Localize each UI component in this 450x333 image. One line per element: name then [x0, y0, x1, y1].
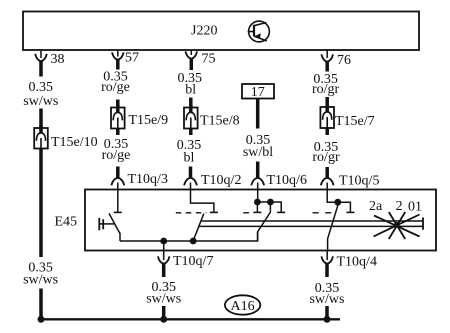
- svg-text:T15e/8: T15e/8: [200, 114, 240, 129]
- switch1 actuator line: [99, 223, 115, 225]
- wire col5 stub below connector: [325, 128, 329, 135]
- pin T10q/3 into E45: [117, 183, 119, 212]
- svg-text:ro/gr: ro/gr: [312, 82, 340, 97]
- contact foot switch3 left: [253, 211, 261, 213]
- switch3 lever: [258, 202, 271, 241]
- terminal 17 box: [242, 84, 274, 99]
- node A16 oval: [225, 295, 260, 314]
- contact foot switch3 right: [277, 211, 285, 213]
- wire T10q/7 to bus: [162, 306, 166, 319]
- svg-text:2a: 2a: [369, 199, 383, 214]
- svg-text:T10q/4: T10q/4: [337, 255, 377, 270]
- wire T10q/7 stub: [162, 264, 166, 278]
- transistor icon U1: [248, 21, 270, 42]
- svg-text:T10q/7: T10q/7: [173, 254, 213, 269]
- wire col3 stub below connector: [189, 129, 193, 136]
- switch3 bridge wire: [257, 202, 281, 212]
- switch4 lever: [328, 202, 338, 250]
- svg-text:T10q/2: T10q/2: [201, 173, 241, 188]
- wire from 17: [256, 99, 260, 129]
- connector terminal 75 fork: [186, 51, 198, 58]
- svg-text:ro/ge: ro/ge: [101, 80, 130, 95]
- junction dot rail T10q/7: [160, 238, 167, 245]
- pin 38 of J220: [40, 50, 42, 58]
- wire col5 to connector: [325, 97, 329, 107]
- wire col5 stub below fork: [325, 62, 329, 72]
- wire col2 to E45: [116, 167, 120, 178]
- junction dot rail lever2: [190, 238, 197, 245]
- track line lower: [198, 225, 423, 227]
- connector T15e/10: [34, 125, 48, 149]
- connector terminal T10q/7 fork: [158, 256, 170, 263]
- dashed coupling line switch4: [313, 212, 332, 214]
- track terminator bar: [422, 218, 424, 230]
- wire col2 stub below connector: [116, 129, 120, 136]
- connector terminal 76 fork: [321, 54, 333, 61]
- wire T10q/4 to bus: [325, 306, 329, 319]
- svg-text:T10q/3: T10q/3: [128, 172, 168, 187]
- svg-text:17: 17: [251, 85, 265, 100]
- connector T15e/7: [320, 104, 334, 129]
- svg-text:J220: J220: [191, 24, 217, 39]
- contact stub switch3 left: [256, 202, 258, 212]
- pin T10q/5 into E45: [327, 183, 338, 203]
- pin 75 of J220: [190, 50, 192, 55]
- connector terminal 38 fork: [35, 54, 47, 61]
- contact foot switch1: [114, 211, 122, 213]
- switch1 lever: [109, 213, 120, 241]
- connector terminal T10q/4 fork: [321, 256, 333, 263]
- wire col3 to E45: [189, 167, 193, 178]
- wire col1 to connector: [39, 109, 43, 129]
- wire col5 to E45: [325, 167, 329, 178]
- wire col3 stub below fork: [190, 59, 194, 71]
- wire col1 stub below fork: [39, 61, 43, 77]
- svg-text:A16: A16: [231, 299, 255, 314]
- wire col2 to connector: [116, 100, 120, 108]
- connector terminal T10q/6 arch: [251, 178, 264, 186]
- switch unit E45 box: [85, 190, 436, 251]
- wire col1 long: [39, 149, 43, 258]
- dashed coupling line switch2: [176, 212, 207, 214]
- connector terminal T10q/5 arch: [321, 178, 334, 186]
- svg-text:75: 75: [202, 52, 216, 67]
- junction dot bus left: [38, 316, 45, 323]
- svg-text:sw/ws: sw/ws: [146, 292, 181, 307]
- switch1 actuator bar 1: [98, 218, 100, 231]
- wire col2 stub below fork: [116, 60, 120, 70]
- pin T10q/4 out of E45: [326, 251, 328, 261]
- svg-text:sw/ws: sw/ws: [23, 94, 58, 109]
- wire T10q/4 stub: [325, 264, 329, 278]
- track line upper: [201, 220, 423, 222]
- svg-text:T15e/7: T15e/7: [335, 114, 375, 129]
- wire col17 to E45: [256, 162, 260, 178]
- svg-text:T10q/6: T10q/6: [267, 173, 307, 188]
- junction dot bus right: [324, 316, 331, 323]
- svg-text:ro/gr: ro/gr: [312, 150, 340, 165]
- bottom rail inside E45: [120, 232, 258, 241]
- connector terminal T10q/2 arch: [184, 178, 197, 186]
- svg-text:2: 2: [396, 199, 403, 214]
- wire rail to T10q/7: [163, 241, 165, 251]
- svg-text:01: 01: [408, 200, 422, 215]
- svg-text:sw/ws: sw/ws: [309, 292, 344, 307]
- wire col1 to bus: [39, 289, 43, 319]
- connector T15e/9: [111, 104, 125, 129]
- lamp asterisk: [374, 212, 420, 239]
- contact foot switch4: [346, 211, 354, 213]
- svg-text:sw/bl: sw/bl: [243, 145, 273, 160]
- switch1 actuator bar 2: [102, 219, 104, 229]
- svg-text:ro/ge: ro/ge: [102, 148, 131, 163]
- junction dot switch4: [334, 199, 341, 206]
- contact foot switch2: [210, 211, 218, 213]
- connector terminal T10q/3 arch: [111, 178, 124, 186]
- pin T10q/7 out of E45: [163, 251, 165, 261]
- pin T10q/2 into E45: [191, 183, 214, 212]
- svg-text:76: 76: [337, 53, 351, 68]
- svg-text:T10q/5: T10q/5: [339, 174, 379, 189]
- junction dot switch3 b: [267, 199, 274, 206]
- pin 57 of J220: [117, 50, 119, 57]
- svg-text:57: 57: [125, 51, 139, 66]
- switch2 lever: [193, 214, 204, 241]
- pin 76 of J220: [326, 50, 328, 58]
- svg-text:E45: E45: [55, 215, 78, 230]
- switch4 bridge wire: [338, 202, 351, 212]
- junction dot bus middle: [160, 316, 167, 323]
- svg-text:T15e/10: T15e/10: [51, 135, 98, 150]
- junction dot switch3 a: [254, 199, 261, 206]
- connector T15e/8: [184, 104, 198, 129]
- wire col3 to connector: [189, 98, 193, 108]
- ground bus wire: [41, 318, 340, 320]
- svg-text:38: 38: [51, 52, 65, 67]
- svg-text:bl: bl: [184, 151, 195, 166]
- lamp center dot: [394, 222, 400, 228]
- svg-text:sw/ws: sw/ws: [23, 273, 58, 288]
- connector terminal 57 fork: [112, 52, 124, 59]
- pin T10q/6 into E45: [257, 183, 259, 203]
- svg-text:bl: bl: [185, 83, 196, 98]
- svg-text:T15e/9: T15e/9: [129, 113, 169, 128]
- control unit J220 box: [23, 12, 419, 51]
- svg-text:0.35: 0.35: [29, 80, 54, 95]
- dashed coupling line switch3: [243, 212, 249, 214]
